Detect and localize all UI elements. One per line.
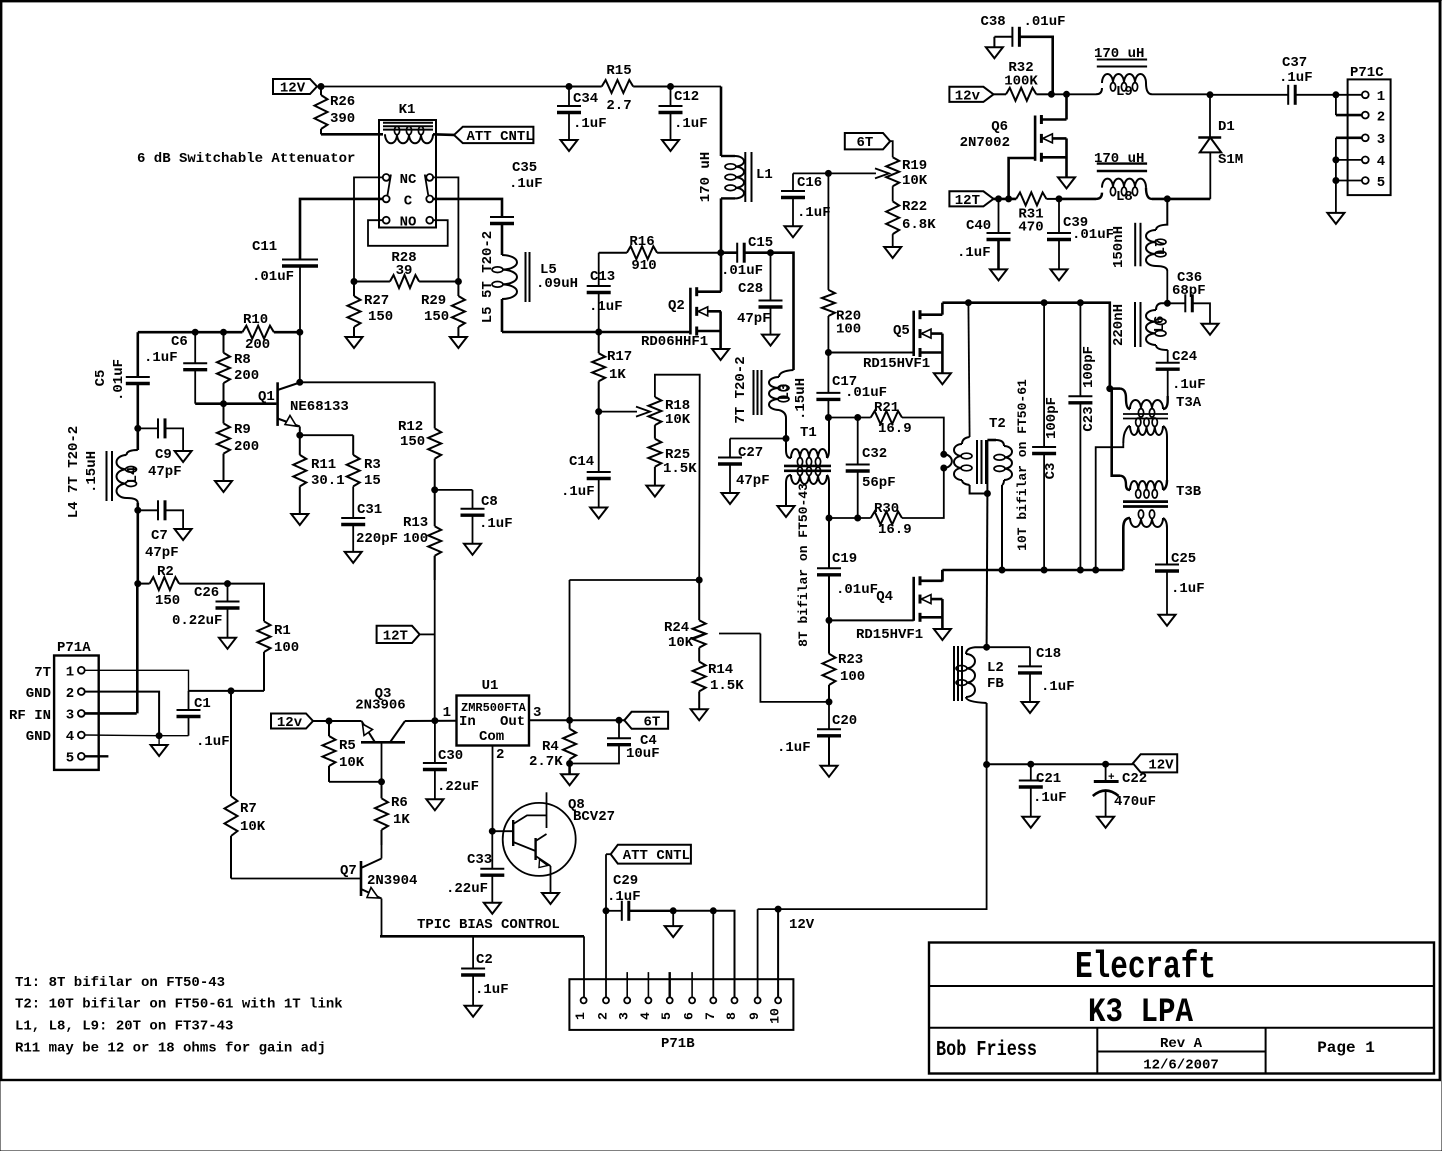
ground C14 bbox=[590, 508, 607, 519]
transformer T3B core bbox=[1123, 502, 1168, 507]
label R10 bbox=[243, 312, 270, 353]
label C5 rotated bbox=[93, 370, 109, 387]
transformer T2 core bbox=[977, 440, 986, 484]
svg-text:.1uF: .1uF bbox=[797, 205, 831, 221]
label RD15HVF1 (Q4) bbox=[856, 627, 923, 643]
label C14 bbox=[561, 454, 595, 500]
node dot R7 top bbox=[228, 688, 234, 694]
label NC bbox=[400, 172, 417, 188]
svg-text:200: 200 bbox=[245, 337, 270, 353]
svg-text:L6: L6 bbox=[1152, 316, 1168, 333]
svg-text:470: 470 bbox=[1018, 220, 1043, 236]
ground R11 bbox=[291, 514, 308, 525]
flag 6T (top) bbox=[845, 133, 890, 151]
svg-text:0.22uF: 0.22uF bbox=[172, 613, 222, 629]
svg-text:R8: R8 bbox=[234, 352, 251, 368]
label NE68133 bbox=[290, 399, 349, 415]
svg-text:C27: C27 bbox=[738, 445, 763, 461]
label C33 bbox=[446, 852, 492, 897]
wire 6T flag to R19 bbox=[890, 141, 893, 157]
capacitor C20 bbox=[817, 702, 841, 766]
svg-text:.01uF: .01uF bbox=[836, 582, 878, 598]
wire to C27 bbox=[730, 438, 786, 440]
label S1M bbox=[1218, 152, 1243, 168]
node dot P71C pin4 bbox=[1333, 157, 1339, 163]
ground C39 bbox=[1051, 269, 1068, 280]
svg-text:R17: R17 bbox=[607, 349, 632, 365]
label R1 bbox=[274, 623, 299, 656]
svg-text:.1uF: .1uF bbox=[144, 350, 178, 366]
svg-text:16.9: 16.9 bbox=[878, 421, 912, 437]
capacitor C22 electrolytic bbox=[1093, 764, 1119, 817]
ground C38 bbox=[986, 47, 1003, 58]
svg-text:.01uF: .01uF bbox=[845, 385, 887, 401]
svg-text:T2: T2 bbox=[989, 416, 1006, 432]
svg-text:TPIC BIAS CONTROL: TPIC BIAS CONTROL bbox=[417, 917, 560, 933]
resistor R30 bbox=[871, 512, 902, 525]
ground C34 bbox=[561, 140, 578, 151]
transistor Q8 BCV27 circle bbox=[503, 803, 576, 876]
svg-text:100: 100 bbox=[840, 669, 865, 685]
node dot R20 top bbox=[825, 170, 831, 176]
svg-text:5: 5 bbox=[66, 751, 74, 767]
svg-text:C40: C40 bbox=[966, 218, 991, 234]
svg-text:2: 2 bbox=[496, 747, 504, 763]
label RD15HVF1 (Q5) bbox=[863, 356, 930, 372]
ground C7 bbox=[175, 529, 192, 540]
ground R9 bbox=[215, 481, 232, 492]
svg-text:R3: R3 bbox=[364, 457, 381, 473]
connector P71A pin 1 bbox=[66, 665, 85, 681]
transistor Q1 NE68133 bbox=[278, 382, 300, 435]
wire T2 center tap bbox=[986, 440, 988, 494]
label GND (pin2) bbox=[26, 686, 51, 702]
flag ATT CNTL (bottom) bbox=[611, 845, 691, 864]
svg-text:L9: L9 bbox=[1116, 84, 1133, 100]
wire 12T flag stub bbox=[420, 633, 435, 635]
ground C25 bbox=[1159, 615, 1176, 626]
wire R31 to L8 bbox=[1059, 198, 1096, 201]
node dot P71C pin5 bbox=[1333, 178, 1339, 184]
label R20 bbox=[836, 309, 861, 338]
ground R22 bbox=[884, 247, 901, 258]
label R22 bbox=[902, 199, 936, 233]
svg-text:R22: R22 bbox=[902, 199, 927, 215]
label GND (pin4) bbox=[26, 729, 51, 745]
label C1 bbox=[194, 696, 230, 750]
svg-text:.01uF: .01uF bbox=[1024, 14, 1066, 30]
capacitor C37 bbox=[1210, 85, 1364, 105]
capacitor C12 bbox=[659, 87, 683, 141]
node dot C23 bottom bbox=[1077, 567, 1083, 573]
node dot R2 bbox=[135, 581, 141, 587]
potentiometer R18 bbox=[648, 397, 661, 425]
wire T1 sec to C19 bbox=[828, 518, 830, 568]
svg-text:BCV27: BCV27 bbox=[573, 809, 615, 825]
capacitor C31 bbox=[341, 518, 365, 552]
node dot C32 top bbox=[855, 415, 861, 421]
node dot R16/C15 bbox=[718, 250, 724, 256]
capacitor C9 bbox=[138, 418, 183, 451]
capacitor C4 bbox=[570, 720, 631, 763]
svg-text:P71C: P71C bbox=[1350, 65, 1384, 81]
svg-text:C35: C35 bbox=[512, 160, 537, 176]
svg-text:R10: R10 bbox=[243, 312, 268, 328]
transformer T2 left winding bbox=[954, 303, 987, 494]
label 100pF rotated (C23) bbox=[1081, 346, 1097, 388]
svg-text:Q6: Q6 bbox=[991, 119, 1008, 135]
wire Q5 drain up bbox=[941, 303, 944, 315]
node dot T1 top-left bbox=[783, 436, 789, 442]
label C27 bbox=[736, 445, 770, 489]
ground R4 bbox=[561, 764, 578, 786]
ground C21 bbox=[1022, 817, 1039, 828]
diode D1 S1M bbox=[1198, 95, 1221, 199]
svg-text:2N7002: 2N7002 bbox=[960, 135, 1010, 151]
label R23 bbox=[838, 652, 865, 685]
label ZMR500FTA bbox=[461, 701, 527, 715]
svg-text:7: 7 bbox=[703, 1012, 718, 1020]
node dot C12 bbox=[668, 84, 674, 90]
wire K1 NC right bbox=[433, 177, 458, 281]
resistor R15 bbox=[569, 80, 671, 93]
svg-text:GND: GND bbox=[26, 729, 51, 745]
transistor Q8 internals bbox=[513, 792, 550, 893]
wire P71A pin5 stub bbox=[85, 755, 109, 757]
svg-text:R30: R30 bbox=[874, 501, 899, 517]
capacitor C1 bbox=[177, 691, 201, 736]
wire R17 to R18 wiper bbox=[599, 411, 637, 413]
svg-text:10T bifilar on FT50-61: 10T bifilar on FT50-61 bbox=[1015, 379, 1030, 551]
svg-text:C13: C13 bbox=[590, 269, 615, 285]
resistor R5 bbox=[323, 721, 336, 782]
label Out bbox=[500, 714, 525, 730]
svg-text:L4 7T T20-2: L4 7T T20-2 bbox=[66, 426, 82, 518]
connector P71C pin 2 bbox=[1362, 109, 1385, 125]
label C9 bbox=[148, 447, 182, 480]
transistor Q5 RD15HVF1 bbox=[914, 310, 943, 357]
svg-text:R26: R26 bbox=[330, 94, 355, 110]
ground C12 bbox=[662, 140, 679, 151]
label RF IN bbox=[9, 708, 51, 724]
node dot Q3 base/R6 bbox=[379, 779, 385, 785]
label R21 bbox=[874, 400, 912, 437]
svg-text:R11 may be 12 or 18 ohms for g: R11 may be 12 or 18 ohms for gain adj bbox=[15, 1041, 326, 1057]
label R25 bbox=[663, 447, 697, 477]
svg-text:C18: C18 bbox=[1036, 646, 1061, 662]
svg-text:R4: R4 bbox=[542, 739, 559, 755]
label .01uF rotated (C5) bbox=[111, 359, 127, 401]
regulator U1 box bbox=[457, 696, 530, 746]
svg-text:2: 2 bbox=[1377, 109, 1385, 125]
label C39 bbox=[1063, 215, 1114, 243]
svg-text:200: 200 bbox=[234, 439, 259, 455]
svg-text:12v: 12v bbox=[955, 88, 981, 104]
resistor R9 bbox=[217, 404, 230, 481]
svg-text:3: 3 bbox=[533, 705, 541, 721]
label C20 bbox=[777, 713, 857, 756]
capacitor C39 bbox=[1047, 199, 1071, 270]
wire R1 to C1 bbox=[189, 690, 265, 692]
capacitor C19 bbox=[817, 568, 841, 620]
svg-text:1: 1 bbox=[573, 1012, 588, 1020]
flag 12T (mid right) bbox=[949, 191, 993, 209]
ground Q5 source bbox=[934, 373, 951, 384]
label U1 pin 3 bbox=[533, 705, 541, 721]
wire P71A pin3 RF IN bbox=[85, 584, 138, 714]
wire L5/Q2 gate row bbox=[502, 331, 690, 334]
node dot Q4 gate bbox=[826, 617, 832, 623]
svg-text:5: 5 bbox=[1377, 175, 1385, 191]
svg-text:NO: NO bbox=[400, 215, 417, 231]
wire R21 to link bbox=[902, 418, 944, 455]
svg-text:R7: R7 bbox=[240, 801, 257, 817]
label C37 bbox=[1279, 55, 1313, 86]
svg-text:6: 6 bbox=[682, 1012, 697, 1020]
svg-text:In: In bbox=[459, 714, 476, 730]
svg-text:C24: C24 bbox=[1172, 349, 1197, 365]
svg-text:RD15HVF1: RD15HVF1 bbox=[856, 627, 923, 643]
arrow R19 wiper bbox=[875, 168, 889, 178]
svg-text:39: 39 bbox=[396, 263, 413, 279]
connector P71A pin 4 bbox=[66, 729, 85, 745]
label TPIC BIAS CONTROL bbox=[417, 917, 560, 933]
transistor Q2 RD06HHF1 bbox=[690, 287, 721, 335]
svg-text:C33: C33 bbox=[467, 852, 492, 868]
label D1 bbox=[1218, 119, 1235, 135]
svg-text:.1uF: .1uF bbox=[957, 245, 991, 261]
title Page 1 bbox=[1317, 1039, 1375, 1057]
svg-text:220pF: 220pF bbox=[356, 531, 398, 547]
resistor R12 bbox=[428, 382, 441, 490]
svg-text:R11: R11 bbox=[311, 457, 336, 473]
svg-text:C15: C15 bbox=[748, 235, 773, 251]
label R26 bbox=[330, 94, 355, 127]
arrow R18 wiper bbox=[636, 407, 650, 417]
node dot C29 gnd bbox=[670, 908, 676, 914]
svg-text:56pF: 56pF bbox=[862, 475, 896, 491]
relay K1 coil bbox=[385, 126, 433, 143]
capacitor C38 bbox=[994, 27, 1052, 95]
svg-text:12v: 12v bbox=[277, 715, 303, 731]
ground C16 bbox=[785, 226, 802, 237]
label C29 bbox=[607, 873, 641, 905]
wire Q1 collector net bbox=[300, 381, 435, 383]
svg-text:K1: K1 bbox=[399, 102, 416, 118]
svg-text:C19: C19 bbox=[832, 551, 857, 567]
svg-text:C12: C12 bbox=[674, 89, 699, 105]
wire Q3 collector to U1 bbox=[405, 720, 457, 722]
label C30 bbox=[437, 748, 479, 795]
svg-text:T3A: T3A bbox=[1176, 395, 1202, 411]
svg-text:L7: L7 bbox=[1153, 239, 1169, 256]
transformer T2 link bbox=[941, 451, 952, 471]
ground C33 bbox=[484, 903, 501, 914]
ground C22 bbox=[1097, 817, 1114, 828]
flag 12T (lower) bbox=[377, 626, 420, 645]
svg-text:Q7: Q7 bbox=[340, 863, 357, 879]
wire C29 net to pins 7-8 bbox=[673, 911, 734, 997]
svg-text:T3B: T3B bbox=[1176, 484, 1202, 500]
resistor R8 bbox=[217, 332, 230, 404]
ground C27 bbox=[722, 493, 739, 504]
transistor Q6 2N7002 bbox=[1035, 115, 1066, 162]
relay K1 box bbox=[379, 120, 436, 228]
svg-text:12V: 12V bbox=[280, 81, 306, 97]
capacitor C3 bbox=[1032, 303, 1056, 570]
label T1 bbox=[800, 425, 817, 441]
label C36 bbox=[1172, 270, 1206, 299]
transformer T3A secondary bbox=[1123, 418, 1167, 480]
label U1 pin 1 bbox=[443, 705, 451, 721]
ground C8 bbox=[464, 544, 481, 555]
label 170 uH rotated bbox=[698, 152, 714, 202]
label R4 bbox=[529, 739, 563, 770]
svg-text:.15uH: .15uH bbox=[84, 451, 100, 493]
ground P71A gnd net bbox=[151, 736, 168, 756]
title date 12/6/2007 bbox=[1143, 1058, 1219, 1074]
inductor L5 core bbox=[526, 252, 530, 302]
node dot C39 bbox=[1056, 196, 1062, 202]
svg-text:2.7K: 2.7K bbox=[529, 754, 563, 770]
wire Q2 source to ground bbox=[719, 311, 722, 349]
svg-text:6 dB Switchable Attenuator: 6 dB Switchable Attenuator bbox=[137, 151, 355, 167]
label C17 bbox=[832, 374, 887, 401]
svg-text:2N3906: 2N3906 bbox=[355, 698, 405, 714]
svg-text:170 uH: 170 uH bbox=[1094, 46, 1144, 62]
svg-text:C32: C32 bbox=[862, 446, 887, 462]
svg-text:U1: U1 bbox=[482, 678, 499, 694]
wire C12 to L1 bbox=[671, 87, 722, 157]
node dot C14 bbox=[596, 409, 602, 415]
svg-text:Bob Friess: Bob Friess bbox=[936, 1039, 1037, 1062]
svg-text:.01uF: .01uF bbox=[1072, 227, 1114, 243]
label C bbox=[404, 194, 413, 210]
svg-text:1.5K: 1.5K bbox=[663, 461, 697, 477]
wire P71C pin 3 bbox=[1336, 137, 1362, 140]
wire R10 row bbox=[138, 332, 300, 382]
node dot D1 top bbox=[1207, 92, 1213, 98]
node dot C7 bbox=[135, 507, 141, 513]
svg-text:100pF: 100pF bbox=[1081, 346, 1097, 388]
relay K1 contacts bbox=[383, 174, 433, 224]
ground C29 net bbox=[665, 911, 682, 937]
capacitor C32 bbox=[846, 418, 870, 519]
svg-text:Rev A: Rev A bbox=[1160, 1036, 1203, 1052]
label Q6 bbox=[991, 119, 1008, 135]
label C19 bbox=[832, 551, 878, 598]
svg-text:4: 4 bbox=[66, 729, 74, 745]
node dot L2 top bbox=[984, 644, 990, 650]
node dot C29 bbox=[603, 908, 609, 914]
transformer T1 secondary bbox=[786, 467, 829, 518]
label Q8 bbox=[568, 797, 585, 813]
label K1 bbox=[399, 102, 416, 118]
node dot R28 right bbox=[455, 279, 461, 285]
wire P71A pin1 to C1 bbox=[85, 670, 189, 691]
node dot C17 top bbox=[825, 350, 831, 356]
node dot C15/C28 bbox=[768, 250, 774, 256]
label 7T T20-2 rotated bbox=[733, 356, 749, 423]
label BCV27 bbox=[573, 809, 615, 825]
wire T3A sec to bus bbox=[1096, 443, 1124, 570]
svg-text:150nH: 150nH bbox=[1111, 226, 1127, 268]
transformer T3B secondary bbox=[1123, 510, 1167, 570]
label R17 bbox=[607, 349, 632, 383]
node dot C36/L6 bbox=[1164, 300, 1170, 306]
svg-text:R23: R23 bbox=[838, 652, 863, 668]
wire K1 NC left bbox=[354, 177, 383, 281]
node dot C32 bottom bbox=[855, 515, 861, 521]
wire U1 com down bbox=[492, 746, 494, 832]
svg-text:R12: R12 bbox=[398, 419, 423, 435]
node dot pin10 bbox=[775, 906, 781, 912]
transformer T3A core bbox=[1123, 414, 1168, 419]
capacitor C28 bbox=[759, 253, 783, 335]
label 150nH rotated bbox=[1111, 226, 1127, 268]
flag 12v (mid) bbox=[949, 87, 993, 105]
capacitor C7 bbox=[138, 500, 183, 529]
svg-text:D1: D1 bbox=[1218, 119, 1235, 135]
wire Q4 source to ground bbox=[941, 599, 944, 629]
label C7 bbox=[145, 528, 179, 561]
svg-text:3: 3 bbox=[66, 708, 74, 724]
label C35 bbox=[509, 160, 543, 192]
svg-text:7T T20-2: 7T T20-2 bbox=[733, 356, 749, 423]
svg-text:12V: 12V bbox=[1148, 757, 1174, 773]
svg-text:R15: R15 bbox=[606, 63, 631, 79]
label C21 bbox=[1033, 771, 1067, 806]
label C15 bbox=[721, 235, 773, 279]
svg-text:Q1: Q1 bbox=[258, 389, 275, 405]
note T1 bbox=[15, 975, 225, 991]
svg-text:8: 8 bbox=[724, 1012, 739, 1020]
svg-text:68pF: 68pF bbox=[1172, 283, 1206, 299]
svg-text:C6: C6 bbox=[171, 334, 188, 350]
label 10T bifilar on FT50-61 rotated bbox=[1015, 379, 1030, 551]
label C24 bbox=[1172, 349, 1206, 393]
svg-text:10K: 10K bbox=[240, 819, 266, 835]
wire R32 to L9 bbox=[1051, 93, 1096, 95]
flag 12V (top left) bbox=[273, 79, 317, 97]
inductor L5 bbox=[492, 255, 517, 332]
svg-text:10: 10 bbox=[768, 1008, 783, 1024]
resistor R23 bbox=[823, 620, 836, 702]
title text K3 LPA bbox=[1088, 994, 1194, 1032]
label C2 bbox=[475, 952, 509, 998]
inductor L7 bbox=[1146, 199, 1167, 303]
wire K1 C right to C35 bbox=[433, 199, 502, 217]
connector P71B unused pin stubs bbox=[627, 972, 692, 997]
capacitor C18 bbox=[1018, 647, 1042, 702]
svg-text:100: 100 bbox=[274, 640, 299, 656]
wire P71B pin9 up bbox=[757, 909, 759, 997]
label FB bbox=[987, 676, 1004, 692]
node dot 12V/R26 bbox=[318, 84, 324, 90]
svg-text:7T: 7T bbox=[34, 665, 51, 681]
node dot T2 right bottom bbox=[999, 567, 1005, 573]
flag 6T (U1) bbox=[624, 712, 668, 731]
label C11 bbox=[252, 239, 294, 285]
node dot Q6 gate net bbox=[1006, 196, 1012, 202]
svg-text:.1uF: .1uF bbox=[1033, 790, 1067, 806]
label C34 bbox=[573, 91, 607, 132]
wire 12v to Q3 bbox=[313, 720, 362, 722]
wire P71C pin 5 bbox=[1336, 180, 1362, 182]
label C8 bbox=[479, 494, 513, 532]
node dot Q1 emitter bbox=[297, 432, 303, 438]
svg-text:1K: 1K bbox=[393, 812, 410, 828]
